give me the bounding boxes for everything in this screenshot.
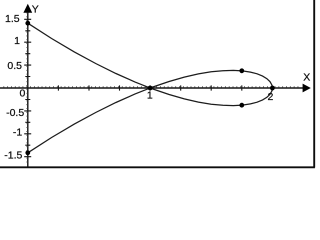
svg-text:-1: -1 bbox=[13, 127, 22, 139]
point (1.75,-0.375) bbox=[239, 103, 244, 108]
x-axis micro graduations bbox=[4, 86, 298, 87]
y-axis micro graduations bbox=[26, 13, 28, 162]
svg-text:1: 1 bbox=[147, 89, 153, 101]
svg-text:1.5: 1.5 bbox=[5, 13, 20, 25]
svg-text:-0.5: -0.5 bbox=[6, 107, 24, 119]
svg-text:2: 2 bbox=[267, 91, 273, 103]
y-axis arrowhead bbox=[23, 4, 32, 13]
frame right border bbox=[313, 0, 315, 168]
x-axis ticks 0.25..2.0 bbox=[58, 85, 272, 90]
point (0,1.414) bbox=[25, 21, 30, 26]
y-axis major ticks bbox=[24, 19, 31, 156]
point (0,-1.414) bbox=[25, 150, 30, 155]
svg-text:X: X bbox=[303, 72, 310, 84]
y-axis line bbox=[27, 11, 29, 167]
svg-text:0.5: 0.5 bbox=[7, 60, 22, 72]
curve y^2=(x-1)^2(2-x) bbox=[28, 23, 273, 153]
x-axis line bbox=[0, 87, 303, 89]
x-axis arrowhead bbox=[303, 84, 311, 93]
svg-text:1: 1 bbox=[14, 35, 20, 47]
frame bottom border bbox=[0, 166, 315, 168]
point (1,0) bbox=[148, 86, 153, 91]
svg-text:0: 0 bbox=[19, 87, 25, 99]
point (1.75,0.375) bbox=[239, 68, 244, 73]
svg-text:Y: Y bbox=[32, 4, 39, 16]
svg-text:-1.5: -1.5 bbox=[4, 150, 22, 162]
point (2,0) bbox=[270, 86, 275, 91]
y-axis minor ticks bbox=[25, 31, 30, 145]
